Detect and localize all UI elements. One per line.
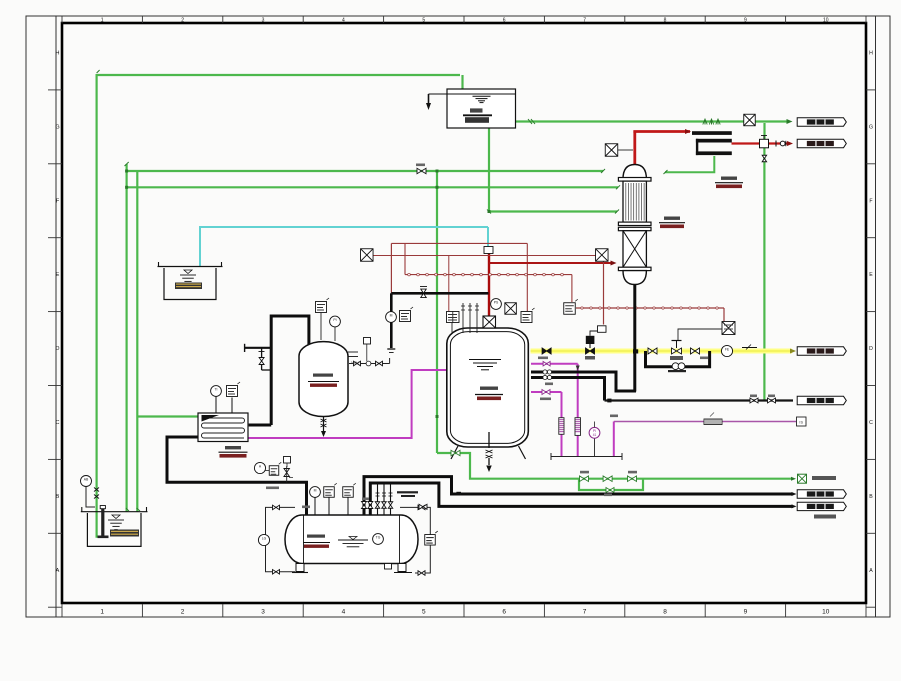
svg-text:H: H: [869, 51, 873, 57]
svg-text:C: C: [56, 420, 60, 426]
svg-text:D: D: [56, 346, 60, 352]
svg-text:8: 8: [664, 18, 667, 24]
svg-text:A: A: [869, 568, 873, 574]
svg-text:C: C: [869, 420, 873, 426]
svg-text:5: 5: [422, 18, 425, 24]
svg-text:1: 1: [101, 18, 104, 24]
svg-text:4: 4: [342, 609, 346, 616]
svg-text:10: 10: [822, 609, 830, 616]
svg-text:2: 2: [181, 609, 185, 616]
svg-text:E: E: [56, 272, 60, 278]
svg-text:TG: TG: [376, 536, 381, 540]
svg-text:IS: IS: [799, 420, 803, 424]
svg-text:B: B: [56, 494, 60, 500]
svg-text:D: D: [869, 346, 873, 352]
svg-text:H: H: [56, 51, 60, 57]
svg-text:M: M: [314, 489, 317, 493]
svg-text:9: 9: [744, 18, 747, 24]
svg-text:2: 2: [181, 18, 184, 24]
svg-text:PS: PS: [494, 301, 499, 305]
svg-text:FE: FE: [725, 348, 730, 352]
svg-text:7: 7: [583, 609, 587, 616]
svg-text:AB: AB: [84, 478, 89, 482]
svg-text:7: 7: [583, 18, 586, 24]
svg-text:3: 3: [262, 18, 265, 24]
svg-text:6: 6: [503, 18, 506, 24]
svg-text:G: G: [55, 124, 59, 130]
svg-text:9: 9: [744, 609, 748, 616]
svg-text:B: B: [869, 494, 873, 500]
svg-text:41: 41: [593, 433, 597, 437]
svg-text:E: E: [869, 272, 873, 278]
svg-text:3: 3: [261, 609, 265, 616]
svg-text:LG: LG: [262, 537, 267, 541]
svg-text:8: 8: [663, 609, 667, 616]
svg-text:TI: TI: [214, 388, 217, 392]
svg-text:F: F: [869, 198, 872, 204]
svg-text:6: 6: [502, 609, 506, 616]
svg-text:G: G: [869, 124, 873, 130]
svg-text:A: A: [56, 568, 60, 574]
svg-text:10: 10: [823, 18, 829, 24]
svg-text:1: 1: [100, 609, 104, 616]
svg-text:MOH: MOH: [351, 361, 359, 365]
svg-text:M: M: [390, 314, 393, 318]
svg-text:PI: PI: [333, 318, 336, 322]
svg-text:5: 5: [422, 609, 426, 616]
svg-text:4: 4: [342, 18, 345, 24]
